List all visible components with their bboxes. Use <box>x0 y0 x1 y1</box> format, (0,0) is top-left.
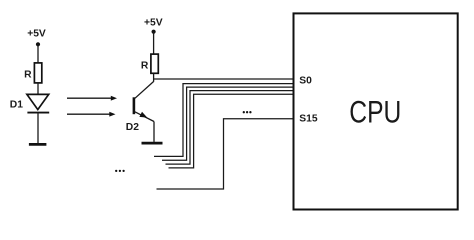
svg-text:+5V: +5V <box>144 18 163 29</box>
node supply dot D2 branch <box>152 30 156 34</box>
ellipsis lower-left more circuits <box>115 170 125 172</box>
wire S2 bus line <box>162 87 294 160</box>
wire emitter to ground <box>153 122 155 142</box>
wire resistor to collector junction <box>153 73 155 82</box>
phototransistor D2 base bar <box>133 97 136 114</box>
svg-text:D2: D2 <box>126 122 139 133</box>
svg-text:D1: D1 <box>10 99 23 110</box>
LED D1 cathode bar <box>27 112 49 114</box>
light arrow upper <box>67 96 117 101</box>
wire diode to ground <box>37 113 39 144</box>
svg-text:S0: S0 <box>299 76 312 87</box>
ground (D2 branch) <box>142 142 163 145</box>
wire S3 bus line <box>166 91 294 165</box>
wire supply to resistor R (D2 branch) <box>153 32 155 55</box>
ellipsis between bus lines <box>243 111 252 113</box>
svg-text:R: R <box>141 60 149 71</box>
svg-text:S15: S15 <box>299 113 318 124</box>
phototransistor D2 emitter lead <box>135 112 154 122</box>
ground (D1 branch) <box>29 143 47 146</box>
wire S4 bus line <box>169 94 294 168</box>
LED D1 triangle <box>27 94 49 109</box>
CPU box U1 <box>294 13 458 209</box>
node supply dot D1 branch <box>36 42 40 46</box>
resistor R (D1 branch) <box>34 63 41 83</box>
phototransistor D2 emitter arrowhead <box>139 112 147 118</box>
phototransistor D2 collector lead <box>135 82 154 99</box>
wire S1 bus line <box>154 84 294 157</box>
wire S15 to CPU <box>157 119 294 189</box>
resistor R (D2 branch) <box>151 54 158 73</box>
light arrow lower <box>67 112 116 117</box>
svg-text:+5V: +5V <box>27 29 46 40</box>
wire supply to resistor R (D1 branch) <box>37 44 39 63</box>
wire S0 collector to CPU <box>154 78 294 80</box>
wire resistor to diode D1 <box>37 83 39 95</box>
svg-text:R: R <box>24 70 32 81</box>
svg-text:CPU: CPU <box>349 93 401 129</box>
